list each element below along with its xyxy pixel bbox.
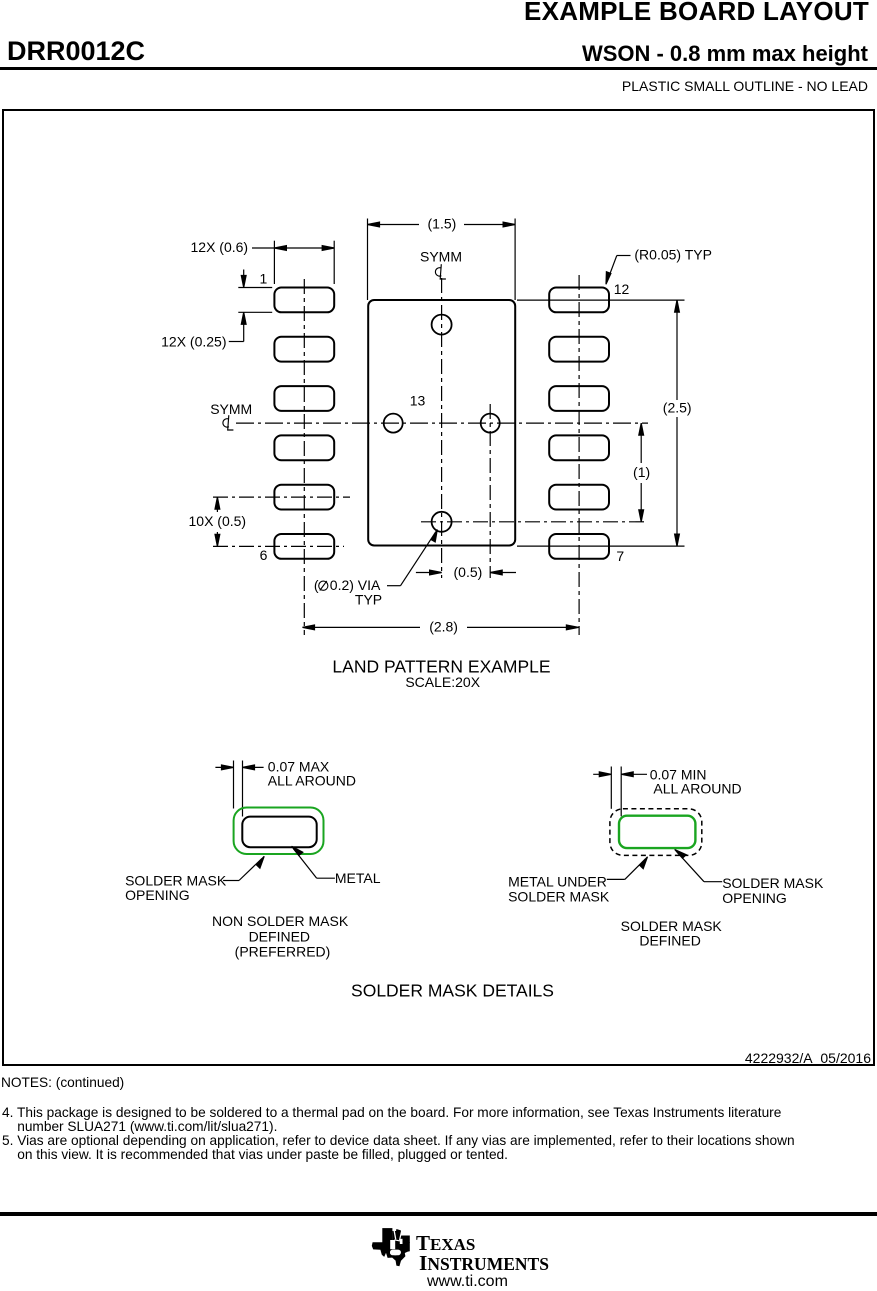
doc number <box>745 1050 871 1066</box>
svg-text:SOLDER MASK: SOLDER MASK <box>621 918 723 934</box>
svg-text:12X (0.6): 12X (0.6) <box>191 239 249 255</box>
centerline left pad column <box>303 279 305 635</box>
pad 7 <box>549 534 609 559</box>
label solder mask opening (left) <box>223 856 264 880</box>
svg-text:0.2) VIA: 0.2) VIA <box>330 577 381 593</box>
right detail: metal under solder mask (dashed) <box>610 809 702 856</box>
package name <box>582 41 868 67</box>
svg-text:7: 7 <box>616 548 624 564</box>
svg-text:(1): (1) <box>633 464 650 480</box>
via middle right <box>481 414 500 433</box>
right detail: solder mask opening (green) <box>619 816 695 848</box>
package outline thermal pad 13 <box>368 300 515 546</box>
drawing frame <box>3 110 874 1065</box>
svg-text:SCALE:20X: SCALE:20X <box>405 674 480 690</box>
centerline pad row 5 <box>213 496 350 498</box>
svg-text:(2.5): (2.5) <box>663 400 692 416</box>
pad 10 <box>549 386 609 411</box>
dimension 10X (0.5) <box>215 497 220 546</box>
label solder mask opening (right) <box>675 850 723 882</box>
svg-text:NON SOLDER MASK: NON SOLDER MASK <box>212 913 349 929</box>
pin 7 label <box>616 548 624 564</box>
left detail: dimension 0.07 MAX <box>215 761 263 817</box>
svg-text:(0.5): (0.5) <box>454 564 483 580</box>
header title <box>524 0 869 27</box>
dimension 12X (0.6) <box>252 241 334 284</box>
wordmark <box>416 1231 475 1256</box>
pin 1 label <box>260 271 268 287</box>
pad 12 <box>549 288 609 313</box>
dimension (2.5) <box>675 300 680 546</box>
svg-text:SOLDER MASK: SOLDER MASK <box>508 889 610 905</box>
pad 2 <box>274 337 334 362</box>
dimension (1.5) <box>368 219 516 301</box>
svg-text:(2.8): (2.8) <box>429 619 458 635</box>
svg-text:DEFINED: DEFINED <box>249 929 310 945</box>
caption solder mask defined <box>621 918 723 949</box>
pad 9 <box>549 435 609 460</box>
pad 5 <box>274 485 334 510</box>
svg-text:6: 6 <box>260 547 268 563</box>
pad 6 <box>274 534 334 559</box>
pad 3 <box>274 386 334 411</box>
pin 6 label <box>260 547 268 563</box>
svg-text:10X (0.5): 10X (0.5) <box>189 513 247 529</box>
centerline pad row 6 <box>213 545 344 547</box>
centerline package vertical symm <box>441 278 443 578</box>
via middle left <box>384 414 403 433</box>
label metal (left) <box>292 846 335 878</box>
left detail: metal pad <box>242 817 316 848</box>
header rule <box>0 67 877 70</box>
pin 13 label <box>410 392 426 408</box>
part number <box>7 36 145 67</box>
symm horizontal centerline <box>236 422 648 424</box>
pad 4 <box>274 435 334 460</box>
via top <box>432 315 452 335</box>
svg-text:OPENING: OPENING <box>125 887 190 903</box>
right detail: dimension 0.07 MIN <box>593 767 647 817</box>
svg-text:(PREFERRED): (PREFERRED) <box>235 943 331 959</box>
centerline right via column <box>489 404 491 578</box>
via bottom <box>432 512 452 532</box>
svg-text:METAL: METAL <box>335 870 381 886</box>
section title solder mask details <box>351 980 554 1000</box>
pad 1 <box>274 288 334 313</box>
label symm left <box>210 401 252 430</box>
svg-text:SOLDER MASK DETAILS: SOLDER MASK DETAILS <box>351 980 554 1000</box>
label symm top <box>420 249 462 279</box>
svg-text:TYP: TYP <box>355 592 382 608</box>
svg-text:13: 13 <box>410 392 426 408</box>
pad 11 <box>549 337 609 362</box>
pin 12 label <box>614 281 630 297</box>
svg-text:(R0.05) TYP: (R0.05) TYP <box>634 247 712 263</box>
svg-text:SOLDER MASK: SOLDER MASK <box>722 875 824 891</box>
centerline right pad column <box>578 275 580 635</box>
svg-text:ALL AROUND: ALL AROUND <box>268 773 356 789</box>
svg-text:(1.5): (1.5) <box>428 215 457 231</box>
svg-text:12: 12 <box>614 281 630 297</box>
title land pattern example <box>332 657 550 677</box>
svg-text:OPENING: OPENING <box>722 890 787 906</box>
footer rule <box>0 1212 877 1216</box>
leader (R0.05) TYP <box>606 256 631 285</box>
svg-text:(: ( <box>314 577 319 593</box>
svg-text:SYMM: SYMM <box>210 401 252 417</box>
TI logo (Texas map with ti) <box>371 1227 411 1267</box>
dimension (1) <box>639 423 644 522</box>
svg-text:ALL AROUND: ALL AROUND <box>653 781 741 797</box>
dimension 12X (0.25) <box>229 270 272 342</box>
svg-text:SYMM: SYMM <box>420 249 462 265</box>
svg-text:12X (0.25): 12X (0.25) <box>161 334 226 350</box>
centerline bottom via row <box>421 521 648 523</box>
extension line pad row 12 <box>517 299 685 301</box>
svg-text:1: 1 <box>260 271 268 287</box>
label metal under solder mask <box>607 857 648 880</box>
svg-text:DEFINED: DEFINED <box>639 933 700 949</box>
scale note <box>405 674 480 690</box>
subtitle <box>622 78 868 94</box>
extension line pad row 7 <box>517 545 685 547</box>
dimension (2.8) <box>303 625 579 630</box>
svg-text:METAL UNDER: METAL UNDER <box>508 874 607 890</box>
pad 8 <box>549 485 609 510</box>
leader (0.2) VIA TYP <box>387 530 437 586</box>
dimension (0.5) via pitch <box>416 570 516 575</box>
caption non solder mask defined <box>212 913 349 959</box>
notes <box>1 1075 124 1090</box>
left detail: solder mask opening (green) <box>234 808 324 855</box>
